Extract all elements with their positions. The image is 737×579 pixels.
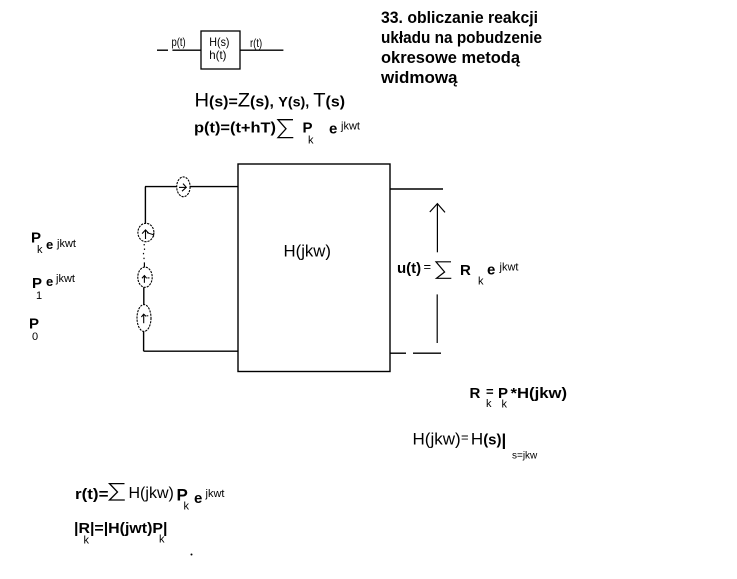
svg-text:H(s)=Z(s), Y(s), T(s): H(s)=Z(s), Y(s), T(s) [195, 91, 346, 112]
svg-text:e: e [194, 490, 202, 507]
svg-text:=: = [486, 384, 494, 399]
svg-text:układu na pobudzenie: układu na pobudzenie [381, 28, 542, 47]
label P 1 e jkwt [32, 273, 75, 302]
formula H(jkw)=H(s)| s=jkw [413, 429, 539, 461]
svg-text:1: 1 [36, 290, 42, 302]
wire left vertical lower [143, 332, 145, 352]
svg-text:okresowe metodą: okresowe metodą [381, 48, 521, 67]
svg-text:r(t)=: r(t)= [75, 486, 109, 503]
svg-text:R: R [460, 262, 471, 279]
formula Rk = Pk * H(jkw) [470, 384, 568, 411]
svg-text:H(jkw): H(jkw) [129, 485, 174, 502]
current source I-k (top, arrow right) [177, 177, 190, 197]
svg-text:k: k [184, 501, 190, 513]
svg-text:=: = [424, 259, 432, 274]
block U0 H(s)/h(t) box [201, 31, 240, 69]
svg-text:H(jkw): H(jkw) [413, 429, 461, 448]
svg-text:jkwt: jkwt [340, 121, 360, 133]
svg-text:33. obliczanie reakcji: 33. obliczanie reakcji [381, 8, 538, 27]
wire bottom right segment 1 [390, 352, 406, 354]
title text [380, 8, 542, 87]
svg-text:H(jkw): H(jkw) [284, 241, 332, 260]
formula H(s)=Z(s),Y(s),T(s) [195, 91, 346, 112]
wire top left [145, 186, 238, 188]
node r(t) label [250, 36, 262, 50]
svg-text:u(t): u(t) [397, 260, 421, 277]
wire input lead under p(t) [172, 49, 201, 51]
svg-text:jkwt: jkwt [56, 238, 76, 250]
svg-text:*H(jkw): *H(jkw) [511, 385, 568, 402]
svg-text:k: k [478, 276, 484, 288]
current source I-1 (arrow up) [138, 267, 152, 287]
svg-text:(s): (s) [483, 431, 501, 448]
svg-text:R: R [470, 385, 481, 402]
svg-text:jkwt: jkwt [205, 488, 225, 500]
wire dotted continuation [144, 244, 145, 267]
current source I-k2 (arrow up) [138, 223, 154, 241]
formula p(t)=(t+hT)sum Pk e jkwt [194, 120, 360, 147]
svg-text:H: H [471, 429, 483, 448]
wire bottom left [144, 350, 238, 352]
node p(t) label [172, 35, 186, 49]
svg-text:H(s): H(s) [209, 35, 229, 49]
wire bottom right segment 2 [413, 352, 441, 354]
block U1 H(jkw) box [238, 164, 390, 372]
svg-text:jkwt: jkwt [499, 262, 519, 274]
wire top right [390, 188, 443, 190]
formula r(t)= sum H(jkw) Pk e jkwt [75, 484, 224, 513]
svg-text:p(t)=(t+hT): p(t)=(t+hT) [194, 120, 276, 137]
svg-text:h(t): h(t) [209, 48, 226, 62]
formula u(t)= sum Rk e jkwt [397, 259, 518, 288]
svg-text:k: k [159, 534, 165, 546]
svg-text:p(t): p(t) [172, 35, 186, 49]
svg-text:widmową: widmową [380, 68, 458, 87]
svg-text:jkwt: jkwt [55, 273, 75, 285]
svg-text:|: | [502, 431, 507, 450]
svg-text:s=jkw: s=jkw [512, 450, 538, 461]
wire output lead [240, 49, 283, 51]
arrow u(t) direction [430, 204, 445, 343]
formula |R|k=|H(jwt)Pk| [74, 520, 168, 547]
stray dot mark [191, 554, 193, 556]
wire left vertical upper [144, 187, 146, 223]
label P 0 [29, 316, 39, 343]
svg-text:e: e [46, 237, 53, 252]
svg-text:e: e [46, 274, 53, 289]
wire between sources [143, 287, 145, 305]
svg-text:r(t): r(t) [250, 36, 262, 50]
svg-text:k: k [84, 535, 90, 547]
current source I-0 (arrow up) [137, 305, 151, 332]
svg-text:k: k [486, 398, 492, 410]
label P k e jkwt [31, 230, 76, 256]
svg-text:k: k [37, 244, 43, 256]
svg-text:e: e [329, 121, 337, 138]
svg-text:k: k [308, 135, 314, 147]
svg-text:e: e [487, 261, 495, 278]
svg-text:0: 0 [32, 331, 38, 343]
wire input lead left segment [157, 49, 168, 51]
svg-text:k: k [502, 399, 508, 411]
svg-text:=: = [461, 430, 469, 445]
